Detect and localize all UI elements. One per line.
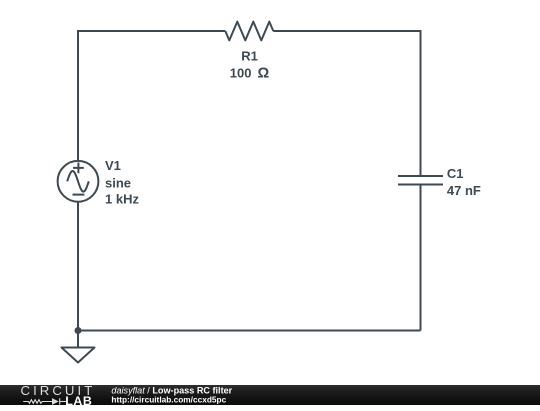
logo resistor-diode squiggle	[23, 398, 68, 404]
wire top-right segment	[273, 31, 420, 176]
svg-text:http://circuitlab.com/ccxd5pc: http://circuitlab.com/ccxd5pc	[111, 394, 226, 404]
svg-text:1 kHz: 1 kHz	[105, 192, 139, 207]
wire top-left segment	[78, 31, 225, 161]
resistor R1	[225, 22, 273, 41]
wire left-bottom segment	[77, 202, 79, 331]
svg-text:LAB: LAB	[65, 393, 92, 405]
svg-text:R1: R1	[241, 49, 258, 64]
wire bottom segment	[78, 330, 421, 332]
node junction	[75, 327, 82, 334]
voltage source V1	[58, 161, 99, 202]
footer bar	[0, 385, 540, 406]
logo diode triangle	[52, 398, 59, 405]
svg-text:C1: C1	[447, 166, 464, 181]
ground	[62, 331, 95, 363]
capacitor C1	[398, 176, 443, 185]
svg-text:V1: V1	[105, 158, 121, 173]
svg-text:sine: sine	[105, 175, 131, 190]
svg-text:100 Ω: 100 Ω	[230, 65, 270, 81]
svg-text:47 nF: 47 nF	[447, 183, 481, 198]
wire right-bottom segment	[420, 185, 422, 331]
